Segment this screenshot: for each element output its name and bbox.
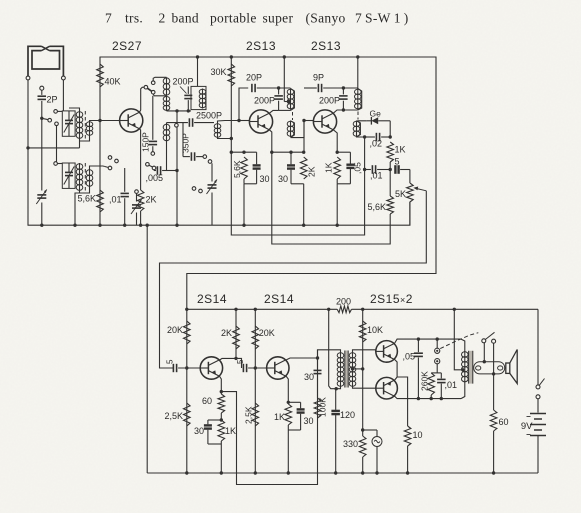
wire 60 gnd [493, 431, 495, 473]
wire 20P right [257, 87, 291, 89]
node 9P right [342, 86, 345, 89]
switch SW1 contact a [482, 339, 486, 343]
node .05 bottom [417, 397, 420, 400]
svg-text:30: 30 [194, 426, 204, 436]
wire bottom ground bus [147, 472, 538, 474]
svg-text:5: 5 [236, 359, 245, 364]
wire antenna right rail [62, 80, 64, 111]
label .5 first [166, 359, 175, 364]
wire base 2S13a [239, 120, 249, 122]
wire 2S14b collector [286, 358, 318, 360]
transistor 2S14 second [267, 357, 289, 379]
switch S1c pole [144, 85, 148, 89]
svg-text:2S15×2: 2S15×2 [370, 292, 413, 306]
switch S1a contact a [48, 118, 52, 122]
wire battery top [537, 399, 539, 413]
node 5.6K gnd [98, 224, 101, 227]
wire ebar2 bottom [291, 183, 304, 185]
variable capacitor VC1 [64, 111, 74, 136]
jack contact lower [435, 359, 440, 364]
resistor 10K [359, 321, 366, 342]
wire secondary to switch [483, 343, 485, 362]
wire jack bottom [436, 364, 438, 373]
svg-text:2500P: 2500P [196, 111, 222, 121]
switch S1c contact b [151, 90, 155, 94]
label 1K emitter [324, 162, 334, 173]
wire L2 bottom to rail [218, 137, 232, 139]
capacitor 30 if1 [253, 152, 261, 184]
node 200P collector [342, 108, 345, 111]
svg-text:,01: ,01 [109, 195, 122, 205]
diode Ge [367, 117, 390, 125]
trimmer capacitor CT2 [131, 200, 142, 215]
wire S1c tap lower [153, 94, 166, 96]
wire T5 sec bottom [357, 136, 365, 137]
wire det rail [364, 137, 366, 172]
volume pot 5K [407, 170, 414, 226]
node 2.5K-2 gnd [254, 471, 257, 474]
wire driver primary feed [329, 309, 337, 388]
label 20K first [167, 325, 183, 335]
title text [105, 11, 409, 26]
switch S1b lever [105, 167, 109, 168]
wire 2S14a emitter [220, 376, 222, 394]
node .005 junction [175, 169, 178, 172]
svg-text:40K: 40K [105, 77, 121, 87]
transistor 2S15 lower [376, 377, 398, 399]
wire feedback U [221, 350, 317, 485]
switch SW1 contact b [492, 339, 496, 343]
svg-text:60: 60 [202, 396, 212, 406]
wire e1 gnd [220, 441, 222, 473]
thermistor branch [363, 430, 382, 473]
wire top ground bus [28, 202, 410, 226]
label 20K second [259, 328, 275, 338]
node ebar2 c [302, 151, 305, 154]
label 1K det [395, 145, 406, 155]
wire 2S14b emitter [286, 376, 288, 402]
wire T2 primary bottom [75, 191, 80, 225]
node ebar1 a [230, 151, 233, 154]
wire T1 primary top [69, 108, 80, 111]
label 200 [336, 297, 351, 307]
svg-text:1K: 1K [324, 162, 334, 173]
node driver prim bottom [335, 387, 338, 390]
node S1a common [40, 117, 43, 120]
resistor 20K second [252, 326, 259, 349]
svg-text:1K: 1K [225, 426, 236, 436]
wire L1b top [166, 123, 168, 125]
wire 2K bias drop [303, 121, 305, 153]
wire 20P link [239, 88, 248, 121]
label 2S13 second [311, 39, 341, 53]
resistor 1K det [387, 142, 394, 162]
wire VC2 terminal stub [57, 163, 62, 165]
svg-text:2K: 2K [146, 195, 157, 205]
svg-text:9V: 9V [521, 421, 533, 432]
terminal VC1 [54, 110, 58, 114]
svg-text:330: 330 [343, 439, 358, 449]
label 30 af1 [194, 426, 204, 436]
resistor 2.5K first [184, 403, 191, 426]
node osc bottom a [175, 109, 178, 112]
node osc bottom b [187, 109, 190, 112]
node e1 gnd [220, 471, 223, 474]
antenna coil T2 secondary [86, 169, 93, 187]
capacitor 30 af2 [288, 402, 304, 430]
label 30 fb [304, 372, 314, 382]
label 5K [395, 189, 406, 199]
driver transformer secondary [349, 352, 356, 387]
wire 1K emitter gnd [336, 184, 338, 225]
svg-text:20K: 20K [167, 325, 183, 335]
wire 2P top [41, 90, 43, 95]
label .01 det [370, 171, 383, 181]
wire S1a to VC2 [56, 126, 58, 162]
svg-text:9P: 9P [313, 73, 324, 83]
label 1K first [225, 426, 236, 436]
capacitor 200P if2 [339, 88, 348, 110]
oscillator coil L1b [163, 124, 170, 142]
resistor 5.6K emitter-left [97, 190, 104, 212]
switch S1d contact a [203, 155, 207, 159]
wire 350P switch to trimmer [211, 163, 213, 181]
svg-text:30: 30 [304, 372, 314, 382]
svg-text:20P: 20P [246, 73, 262, 83]
node 10K top [361, 308, 364, 311]
node T2 gnd [73, 224, 76, 227]
capacitor .01 out [437, 373, 446, 399]
label .5 second [236, 359, 245, 364]
label 2S14 second [264, 292, 294, 306]
wire emitter bar 1 [231, 151, 256, 153]
label 9V [521, 421, 533, 432]
antenna terminal left [26, 76, 30, 80]
svg-text:350P: 350P [181, 133, 191, 153]
resistor 1K first [218, 420, 225, 441]
node AF a [363, 168, 366, 171]
transistor 2S15 upper [376, 341, 398, 363]
wire diode down [389, 121, 391, 137]
svg-text:2K: 2K [307, 166, 317, 177]
label 200P if1 [254, 96, 275, 106]
resistor 260K [428, 373, 435, 395]
antenna coil T1 secondary [86, 121, 93, 136]
node .01 out gnd [440, 397, 443, 400]
capacitor 120 [331, 389, 340, 473]
wire T4 sec to base2 [291, 121, 305, 138]
wire jack top [436, 339, 438, 348]
switch S1c contact a [151, 81, 155, 85]
switch S1e contact b [199, 189, 203, 193]
label 2.5K first [164, 411, 183, 421]
pot 5K tap arrow [413, 187, 426, 191]
wire B+ top rail [100, 57, 437, 309]
node coll1 af [234, 357, 237, 360]
wire battery bottom [537, 436, 539, 474]
wire Q5 collector [394, 339, 461, 344]
switch S1f lever [149, 165, 153, 167]
svg-text:2S13: 2S13 [311, 39, 341, 53]
terminal VC2 [54, 162, 58, 166]
resistor 2K if2 [300, 157, 307, 179]
trimmer capacitor CT3 [207, 180, 218, 195]
antenna coil T2 primary [76, 163, 83, 191]
label 350P [181, 133, 191, 153]
node base2 bias [254, 366, 257, 369]
resistor 30K [228, 64, 235, 86]
wire 2P line to trimmer [41, 118, 43, 190]
oscillator coupling coil L2 [214, 123, 221, 138]
svg-text:1K: 1K [274, 412, 285, 422]
svg-text:5,6K: 5,6K [232, 160, 242, 178]
label 60 first [202, 396, 212, 406]
IF transformer T5 primary [355, 89, 362, 111]
wire 30K rail [230, 57, 232, 225]
switch S1f contact a [146, 163, 150, 167]
wire 40K rail [99, 57, 101, 225]
node left frame to bus [146, 224, 149, 227]
transistor 2S13 second [313, 110, 336, 133]
capacitor 200P osc [184, 86, 192, 111]
svg-text:,05: ,05 [402, 352, 415, 362]
svg-text:,05: ,05 [353, 162, 363, 174]
wire 2P bottom [41, 101, 43, 118]
wire 9P right [323, 87, 358, 89]
wire ebar1 bottom [244, 179, 257, 184]
label 200P osc [173, 77, 194, 87]
wire 2S27 emitter [139, 129, 140, 190]
svg-text:5,6K: 5,6K [77, 194, 96, 204]
wire emitter bar 2 [272, 151, 304, 153]
switch power contact b [536, 395, 540, 399]
node det left [363, 135, 366, 138]
wire 2K if2 gnd [303, 184, 305, 225]
wire S1b stub [103, 165, 105, 168]
wire antenna ground link [28, 147, 80, 149]
svg-text:2S13: 2S13 [246, 39, 276, 53]
wire S1c tap upper [153, 77, 166, 81]
svg-text:5: 5 [166, 359, 175, 364]
wire e2 gnd [287, 425, 289, 473]
wire osc coil bottom [167, 109, 192, 112]
wire T3 top feed [197, 57, 199, 86]
resistor 60 first [218, 394, 225, 413]
label 5.6K left [77, 194, 96, 204]
wire T1 primary bottom to gnd wire [79, 139, 81, 148]
node e1 node [220, 418, 223, 421]
label .005 [146, 173, 164, 183]
label 20P [246, 73, 262, 83]
node jack top [436, 337, 439, 340]
node 120 gnd [334, 471, 337, 474]
resistor 1K emitter if2 [334, 157, 341, 179]
label 30 if1 [260, 174, 270, 184]
wire AGC line A [231, 172, 364, 236]
node ant gnd [26, 146, 29, 149]
svg-text:200P: 200P [173, 77, 194, 87]
node base1 af [185, 366, 188, 369]
wire antenna left rail [27, 80, 29, 225]
label .05 out [402, 352, 415, 362]
resistor 40K [97, 64, 104, 87]
wire osc ground drop [176, 111, 178, 225]
node det right [389, 135, 392, 138]
dashed jack link [440, 333, 478, 349]
wire T1 sec top to base [90, 120, 120, 123]
node 260K gnd [430, 397, 433, 400]
svg-text:,01: ,01 [370, 171, 383, 181]
switch S1a contact b [55, 122, 59, 126]
IF transformer T3 winding [199, 89, 206, 109]
capacitor 350P [183, 152, 203, 161]
capacitor 9P [318, 84, 321, 92]
label 2S15x2 [370, 292, 413, 306]
svg-text:60: 60 [499, 417, 509, 427]
capacitor 30 af1 [204, 420, 221, 444]
capacitor 20P [252, 84, 255, 92]
svg-text:5: 5 [395, 157, 400, 167]
node 1K emitter gnd [336, 224, 339, 227]
antenna terminal right [62, 76, 66, 80]
wire T1 sec bottom [80, 136, 90, 141]
label 2S27 [112, 39, 142, 53]
node OT feed top [453, 308, 456, 311]
capacitor 30 if2 [287, 152, 295, 184]
label 2.5K second [244, 406, 254, 424]
node T3 feed [196, 55, 199, 58]
resistor 2.5K second [252, 403, 259, 426]
transistor 2S27 [120, 109, 143, 132]
wire 9P link [304, 87, 317, 89]
core T2 dashed [84, 163, 86, 191]
wire jack bracket [431, 372, 441, 374]
label 260K [420, 371, 430, 391]
capacitor .05 out [414, 339, 423, 399]
node IFT2 feed top [283, 55, 286, 58]
node ebar3 [336, 151, 339, 154]
wire IFT2 feed [283, 57, 285, 102]
label 5 cap [395, 157, 400, 167]
oscillator coil L1 upper [163, 77, 170, 96]
wire T2 sec bottom [75, 187, 90, 193]
wire emitters to 10 [397, 377, 408, 426]
node 20K-1 gnd [185, 471, 188, 474]
label 200P if2 [319, 96, 340, 106]
capacitor .02 [365, 133, 391, 141]
label Ge [370, 109, 382, 119]
wire L1b bottom [166, 141, 168, 171]
transistor 2S14 first [200, 357, 222, 379]
node ebar2 b [289, 151, 292, 154]
wire Q6 collector [394, 396, 461, 399]
wire 350P drop [182, 123, 184, 157]
node 330 gnd [361, 471, 364, 474]
wire bottom B+ rail [187, 306, 538, 385]
switch S1e contact a [192, 187, 196, 191]
wire OT b+ center tap [454, 309, 461, 370]
wire AGC line B [272, 152, 390, 244]
switch S1b contact a [108, 156, 112, 160]
node base bias 2S13b [302, 119, 305, 122]
wire 20K-2 drop [254, 309, 256, 368]
capacitor .05 emitter [346, 152, 354, 184]
node coll2 af [316, 356, 319, 359]
svg-text:100K: 100K [318, 397, 328, 417]
wire CT2 top [136, 194, 138, 202]
wire 2.5K-2 drop [254, 368, 256, 473]
label .05 emitter [353, 162, 363, 174]
switch S1f contact b [152, 166, 156, 170]
label 200P pointer [180, 87, 187, 94]
svg-text:5K: 5K [395, 189, 406, 199]
wire volume line [160, 191, 427, 368]
label 5.6K if1 [232, 160, 242, 178]
switch S1b contact c [108, 166, 112, 170]
wire speaker return [493, 343, 495, 410]
svg-text:1K: 1K [395, 145, 406, 155]
wire emitter bar 3 [337, 151, 350, 153]
svg-text:120: 120 [340, 410, 355, 420]
svg-text:260K: 260K [420, 371, 430, 391]
wire emitters join [394, 359, 397, 380]
node .05 top [417, 337, 420, 340]
label 9P [313, 73, 324, 83]
speaker [505, 350, 518, 384]
label .02 [370, 139, 383, 149]
capacitor .5 second [243, 364, 246, 372]
node 40K base [98, 119, 101, 122]
wire IFT2 feed tap [284, 100, 290, 103]
variable capacitor VC2 [64, 163, 74, 188]
node 10K tap [361, 367, 364, 370]
node 30K top [230, 55, 233, 58]
wire base 2S27 [100, 120, 120, 122]
node .005 gnd [175, 224, 178, 227]
label 30 if2 [278, 174, 288, 184]
wire 260K gnd [430, 395, 432, 399]
wire 10K drop [362, 309, 364, 436]
wire CT3 bottom [211, 193, 213, 226]
antenna coil T1 primary [76, 111, 83, 139]
switch SW1 lever [486, 332, 495, 339]
node e2 node [287, 401, 290, 404]
wire collector to driver top [318, 350, 341, 358]
svg-text:2,5K: 2,5K [164, 411, 183, 421]
label 2S14 first [197, 292, 227, 306]
oscillator coil L1 lower [163, 96, 170, 111]
label 10K [367, 325, 383, 335]
wire 10 gnd [407, 446, 409, 473]
label 2K [146, 195, 157, 205]
label 10 [413, 430, 423, 440]
svg-text:,005: ,005 [146, 173, 164, 183]
resistor 10 [404, 426, 411, 446]
wire CT1 bottom [41, 203, 43, 226]
resistor 1K second [285, 404, 292, 425]
node driver center tap [351, 367, 354, 370]
node IFT3 feed [356, 55, 359, 58]
wire driver tap [353, 368, 363, 370]
capacitor 150P [149, 141, 158, 144]
node L2 rail [230, 137, 233, 140]
label 2500P [196, 111, 222, 121]
wire 2S14a collector [220, 358, 236, 360]
svg-text:2K: 2K [221, 328, 232, 338]
node 2K gnd [139, 224, 142, 227]
IF transformer T4 secondary [287, 121, 294, 138]
switch power contact a [536, 385, 540, 389]
